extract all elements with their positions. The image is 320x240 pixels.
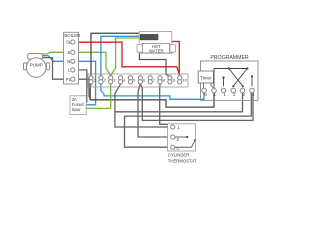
wire: junction 4 down joining programmer 3 run to cylinder stat 1 — [115, 84, 243, 127]
wire: valve switched live red to junction 10 top — [167, 33, 180, 75]
svg-text:PROGRAMMER: PROGRAMMER — [210, 55, 249, 61]
svg-text:PUMP: PUMP — [30, 63, 43, 68]
stat switch — [175, 137, 195, 148]
junction terminal strip 1-10 — [88, 74, 188, 87]
pump — [24, 54, 50, 78]
wire: junction 6 second to programmer 4 — [140, 84, 253, 121]
wire: programmer 4 to cylinder stat C — [125, 93, 252, 147]
wire: boiler PL stub to junction 1 drop — [75, 79, 90, 100]
terminals N L 1 2 3 4 — [202, 88, 255, 93]
wire: pump earth green to boiler E then junction 3 top — [43, 52, 111, 75]
wire: boiler L grey down into fused spur — [75, 70, 87, 103]
wire: junction 1 bottom to programmer L — [90, 84, 214, 107]
internal switch links — [214, 69, 252, 89]
svg-text:WATER: WATER — [149, 49, 164, 54]
timer leads — [204, 83, 214, 88]
wire: junction 6 to cylinder stat 2 — [138, 84, 171, 137]
wire: valve green to junction 3 top — [111, 38, 141, 75]
wire: junction 2 bottom blue run to programmer N — [101, 84, 204, 99]
cylinder thermostat — [168, 124, 197, 164]
wire: black link junction 1 up and over valve motor to red junction dot — [91, 33, 167, 76]
wire: valve grey lead down to junction 9 — [139, 53, 168, 76]
svg-text:THERMOSTAT: THERMOSTAT — [168, 158, 197, 163]
boiler — [64, 32, 81, 84]
svg-text:N: N — [204, 92, 207, 97]
wire: junction 8 north route to cylinder stat 1 — [160, 84, 173, 126]
svg-text:10: 10 — [182, 77, 187, 82]
svg-text:E: E — [68, 50, 71, 55]
svg-text:N: N — [67, 59, 70, 64]
svg-text:BOILER: BOILER — [64, 33, 80, 38]
3A fused spur — [70, 96, 86, 115]
wire: pump neutral blue to boiler N then down to fused spur — [43, 56, 96, 105]
wire: boiler SL red to junction 10 top — [75, 42, 180, 75]
programmer — [198, 55, 258, 101]
svg-text:Spur: Spur — [72, 107, 82, 112]
wire: junction 3 bottom green to fused spur — [86, 84, 111, 109]
svg-text:CYLINDER: CYLINDER — [168, 153, 190, 158]
motorised valve HOT WATER — [137, 32, 175, 54]
junction dot black-red — [165, 32, 168, 35]
wire: valve blue to junction 2 top — [101, 36, 141, 76]
svg-text:Timer: Timer — [200, 75, 212, 80]
wire: pump live grey to boiler PL — [43, 58, 71, 80]
